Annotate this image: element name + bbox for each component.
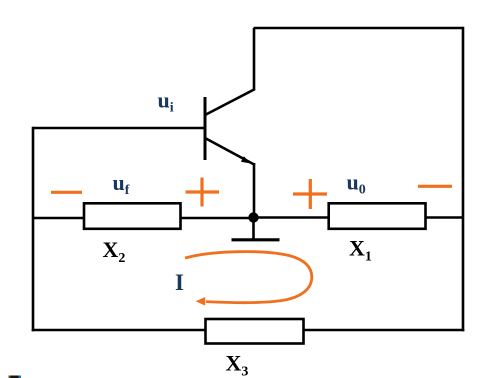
polarity minus (right of X1) xyxy=(418,185,452,188)
wire right rail xyxy=(462,27,465,332)
wire left rail to X2 xyxy=(33,217,84,220)
wire node to X1 xyxy=(254,216,330,219)
wire collector vertical xyxy=(253,28,256,90)
wire X2 to node xyxy=(180,217,254,220)
transistor Q1 emitter stroke with arrow xyxy=(205,138,255,165)
current loop I arrow (orange) xyxy=(185,252,312,303)
node junction dot xyxy=(248,212,258,222)
transistor Q1 base bar xyxy=(204,97,207,160)
ground bar xyxy=(232,238,280,241)
wire left rail xyxy=(32,127,35,332)
svg-text:I: I xyxy=(175,270,184,295)
wire emitter vertical xyxy=(253,163,256,218)
resistor X1 box xyxy=(329,203,426,229)
wire bottom xyxy=(32,329,465,332)
ground stem xyxy=(252,218,255,239)
transistor Q1 collector stroke xyxy=(205,89,255,115)
bottom-left cropped text fragment xyxy=(9,376,22,378)
polarity plus (left of X1) xyxy=(293,192,327,195)
resistor X2 box xyxy=(84,203,181,229)
wire base xyxy=(33,127,205,130)
wire X1 to right rail xyxy=(424,216,463,219)
polarity plus (right of X2) xyxy=(186,190,220,193)
resistor X3 box xyxy=(206,319,304,344)
wire top (collector to right rail) xyxy=(254,27,464,30)
polarity minus (left of X2) xyxy=(51,191,82,194)
